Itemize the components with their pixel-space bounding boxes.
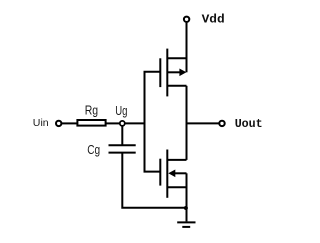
wire node Ug down to capacitor [121,125,123,145]
lower MOSFET gate bar [159,159,161,186]
upper MOSFET source stub [167,85,186,87]
capacitor Cg [109,145,136,152]
svg-text:Uout: Uout [235,117,263,131]
transistor upper MOSFET [160,49,186,97]
wire Rg to node Ug [107,122,121,124]
wire capacitor bottom to ground rail [122,153,186,208]
wire lower bulk/source to ground [186,173,188,221]
upper MOSFET gate bar [159,58,161,87]
upper MOSFET channel bar [166,49,168,97]
lower MOSFET drain stub [167,159,186,161]
lower MOSFET source stub [167,186,186,188]
terminal Uout [219,121,224,126]
resistor Rg [77,120,105,126]
wire Uin to Rg [62,122,77,124]
lower MOSFET bulk arrow [175,172,187,174]
junction dot [184,206,188,210]
lower MOSFET channel bar [166,150,168,198]
upper MOSFET drain stub [167,57,186,59]
svg-text:Rg: Rg [85,103,98,117]
wire upper source to lower drain (output rail) [186,86,188,160]
transistor lower MOSFET [160,150,186,198]
ground [177,222,195,227]
wire to Uout terminal [187,122,220,124]
node Ug [120,121,125,126]
terminal Uin [56,121,61,126]
svg-text:Uin: Uin [33,117,49,129]
svg-text:Cg: Cg [87,143,100,157]
wire node Ug to gate bus [125,122,146,124]
wire Vdd lead [186,23,188,73]
svg-text:Vdd: Vdd [202,12,225,26]
wire gate bus (Ug to both gates) [145,72,161,172]
svg-text:Ug: Ug [115,104,127,118]
upper MOSFET bulk arrow [167,71,180,73]
terminal Vdd [184,17,189,22]
